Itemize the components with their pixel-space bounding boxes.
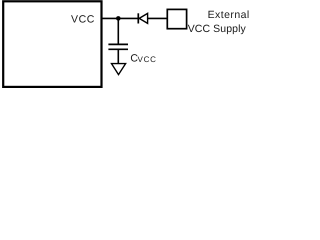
- wire node to capacitor: [117, 18, 119, 44]
- svg-text:VCC Supply: VCC Supply: [188, 23, 247, 35]
- wire VCC pin to diode: [102, 17, 139, 19]
- capacitor CVCC bottom plate: [108, 48, 128, 50]
- diode D1 cathode bar: [137, 13, 139, 23]
- node junction: [116, 16, 121, 21]
- capacitor CVCC top plate: [108, 43, 128, 45]
- diode D1 triangle: [139, 13, 147, 23]
- IC block U1: [3, 1, 101, 87]
- wire diode to external supply box: [148, 17, 167, 19]
- svg-text:CVCC: CVCC: [130, 52, 156, 64]
- svg-text:VCC: VCC: [71, 13, 95, 25]
- external VCC supply box: [167, 9, 186, 28]
- svg-text:External: External: [208, 9, 250, 21]
- wire capacitor to ground: [117, 49, 119, 63]
- ground symbol: [112, 64, 126, 75]
